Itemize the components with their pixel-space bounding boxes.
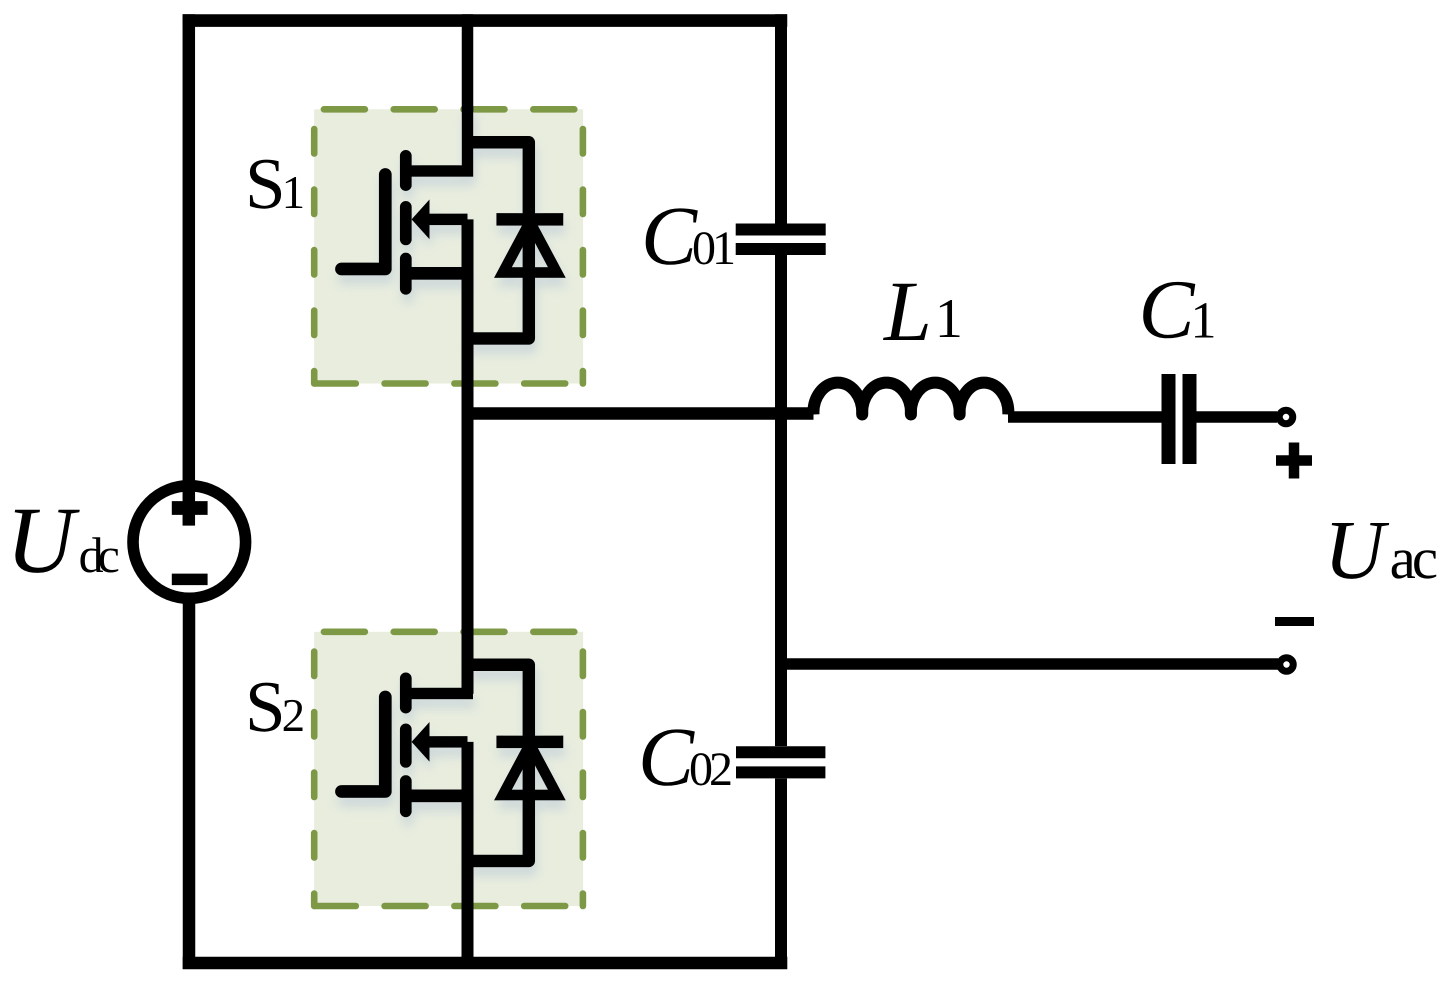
capacitor C02 plates — [736, 752, 825, 772]
svg-text:C1: C1 — [1139, 264, 1217, 357]
S1 source lead — [400, 267, 468, 280]
S2 source lead — [400, 790, 468, 803]
svg-text:L1: L1 — [882, 263, 963, 359]
S1 drain lead — [400, 106, 468, 171]
wire inductor to C1 — [1008, 411, 1162, 423]
S2 diode cathode bar — [496, 736, 563, 749]
wire bottom rail — [183, 957, 788, 970]
S2 drain lead — [400, 688, 473, 700]
wire left rail upper (into + of source) — [183, 14, 196, 525]
snubber box S1 (dashed green) — [314, 109, 583, 383]
snubber box S2 (dashed green) — [314, 632, 583, 906]
transistor S2 (MOSFET with body diode) — [342, 665, 564, 861]
output minus sign — [1275, 617, 1314, 626]
svg-text:C01: C01 — [641, 190, 734, 283]
S2 body arrow wire — [428, 736, 468, 748]
S2 diode triangle — [503, 745, 557, 796]
S2 channel bars — [400, 678, 412, 811]
svg-text:S1: S1 — [245, 143, 305, 224]
svg-text:Uac: Uac — [1324, 504, 1437, 597]
wire S1 drain from top rail — [462, 14, 474, 112]
S1 body diode branch wire — [468, 142, 529, 338]
inductor L1 — [813, 383, 1008, 415]
wire lower output — [781, 658, 1278, 670]
terminal dot - — [1280, 658, 1294, 672]
S2 gate — [342, 697, 386, 792]
capacitor C1 plates — [1169, 374, 1190, 464]
S1 gate — [342, 175, 386, 270]
wire right rail middle — [775, 255, 787, 746]
voltage source Udc circle — [133, 486, 246, 599]
terminal dot + — [1279, 410, 1293, 424]
S2 body diode branch wire — [468, 665, 529, 861]
wire C1 to + terminal — [1197, 411, 1278, 423]
transistor S1 (MOSFET with body diode) — [342, 106, 564, 339]
S1 channel bars — [400, 156, 412, 289]
S2 body arrow head — [412, 722, 430, 762]
Udc minus bar — [172, 574, 208, 586]
svg-text:C02: C02 — [638, 711, 731, 804]
S1 body arrow wire — [428, 214, 468, 226]
wire left rail lower — [183, 597, 196, 969]
wire right rail upper — [775, 14, 787, 223]
wire S2 source to bottom rail — [462, 742, 474, 966]
wire phase to inductor (middle horizontal) — [468, 407, 814, 420]
svg-text:Udc: Udc — [6, 487, 119, 593]
svg-text:S2: S2 — [245, 666, 305, 747]
S1 diode triangle — [503, 222, 557, 273]
capacitor C01 plates — [736, 230, 826, 250]
wire top rail — [183, 14, 788, 27]
wire phase node vertical (S1 source to S2 drain) — [462, 219, 474, 693]
Udc plus crossbar — [172, 501, 208, 515]
wire right rail lower — [775, 779, 787, 964]
S1 diode cathode bar — [496, 213, 563, 226]
S1 body arrow head — [412, 200, 430, 240]
output plus sign — [1276, 443, 1312, 479]
